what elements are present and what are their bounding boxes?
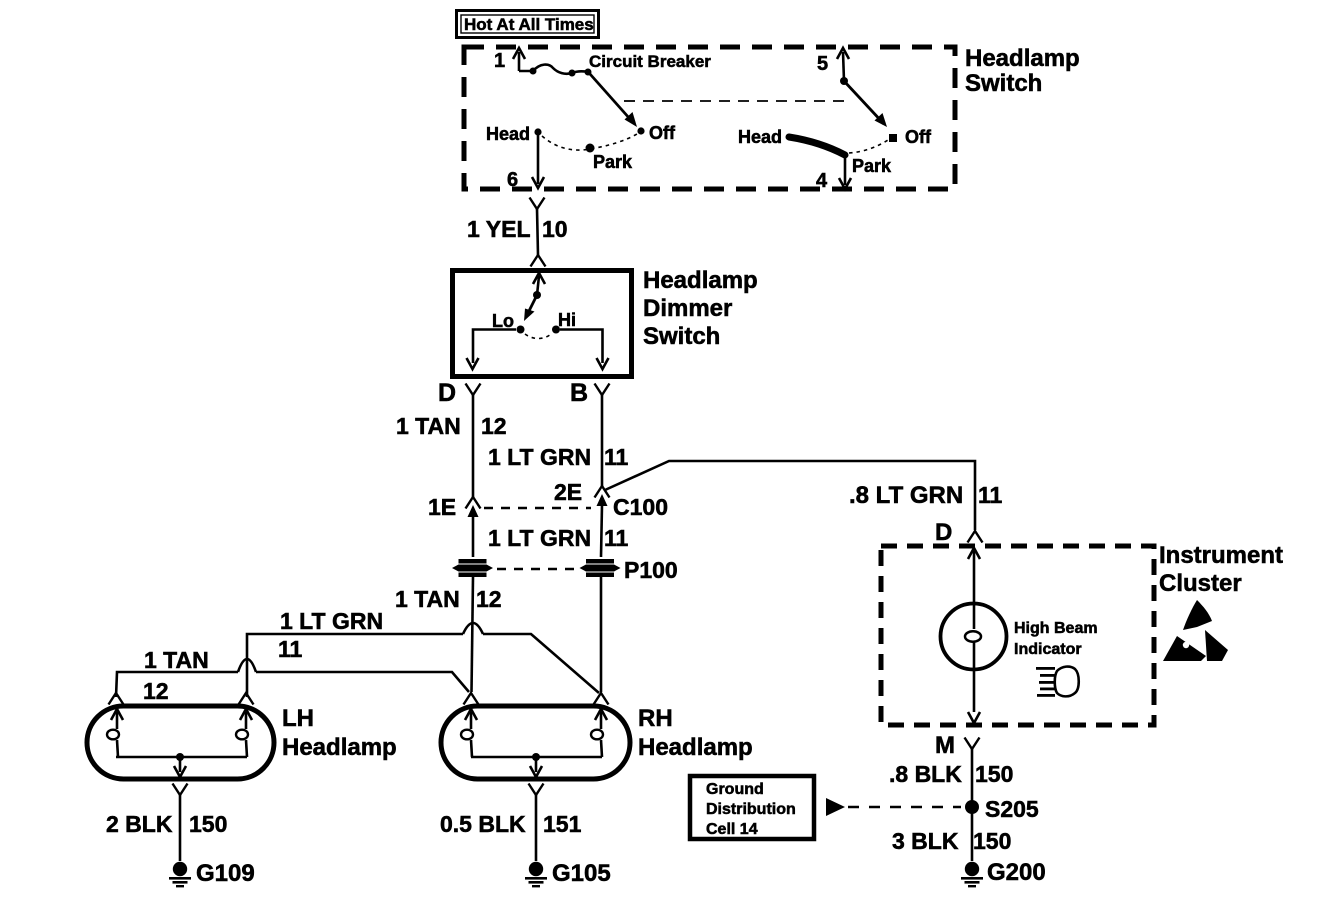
- terminal B: [570, 379, 610, 407]
- wire 0.5 BLK 151: [440, 795, 582, 861]
- svg-text:1: 1: [494, 50, 505, 72]
- svg-text:S205: S205: [985, 796, 1039, 822]
- switch gang link (thin dashed): [624, 100, 852, 102]
- svg-text:151: 151: [543, 811, 582, 837]
- svg-text:1 LT GRN: 1 LT GRN: [488, 444, 591, 470]
- terminal D: [438, 379, 481, 407]
- cluster input arrow: [968, 548, 980, 604]
- wire 1 LT GRN 11 (B to 2E): [488, 395, 629, 486]
- svg-text:Cell 14: Cell 14: [706, 821, 758, 838]
- svg-text:G105: G105: [552, 860, 611, 887]
- wire 3 BLK 150: [892, 828, 1011, 854]
- svg-text:Head: Head: [486, 124, 530, 144]
- high beam indicator bulb: [941, 604, 1098, 713]
- svg-text:1 LT GRN: 1 LT GRN: [488, 525, 591, 551]
- LH filament right: [236, 709, 252, 757]
- svg-text:Headlamp: Headlamp: [282, 734, 397, 761]
- svg-text:4: 4: [816, 170, 828, 192]
- svg-text:Switch: Switch: [965, 70, 1042, 97]
- wire 1 TAN 12 (P100 down): [395, 577, 502, 692]
- terminal D instrument cluster: [935, 519, 983, 546]
- svg-text:Off: Off: [649, 123, 676, 143]
- connector below pin 6: [530, 198, 545, 210]
- RH output fork: [529, 784, 544, 796]
- headlamp dimmer switch box U2: [453, 271, 632, 377]
- svg-text:1 YEL: 1 YEL: [467, 216, 531, 242]
- contact Head (left): [486, 124, 542, 144]
- LH headlamp housing: [87, 706, 274, 779]
- wire 1 TAN 12 (to LH low beam): [116, 647, 469, 704]
- RH internal bus: [471, 753, 602, 777]
- contact Head (right) + heavy wiper: [738, 127, 845, 155]
- svg-text:12: 12: [481, 413, 507, 439]
- high beam icon: [1036, 667, 1079, 697]
- headlamp switch box (dashed): [464, 47, 955, 189]
- dimmer input arrow: [533, 273, 545, 299]
- switch blade 1 (to Off): [590, 74, 637, 127]
- svg-text:D: D: [935, 519, 952, 546]
- connector C100 pin 1E: [428, 494, 481, 520]
- wire 1 LT GRN 11 (2E to P100): [488, 505, 629, 557]
- svg-text:Off: Off: [905, 127, 932, 147]
- splice S205: [965, 796, 1039, 822]
- svg-text:Indicator: Indicator: [1014, 641, 1082, 658]
- contact Park (left) + arc: [542, 134, 637, 172]
- contact Hi: [552, 310, 576, 334]
- svg-text:P100: P100: [624, 557, 678, 583]
- wire 1 LT GRN (P100 down to RH): [600, 577, 603, 692]
- svg-text:Lo: Lo: [492, 311, 514, 331]
- svg-text:Headlamp: Headlamp: [965, 45, 1080, 72]
- connector above dimmer switch: [531, 255, 546, 267]
- svg-text:6: 6: [507, 169, 518, 191]
- svg-text:High Beam: High Beam: [1014, 620, 1098, 637]
- wire 2 BLK 150: [106, 795, 227, 861]
- ground G200: [961, 859, 1046, 887]
- grommet P100 right: [580, 559, 621, 577]
- LH internal bus: [116, 753, 247, 777]
- svg-text:Park: Park: [593, 152, 633, 172]
- svg-text:.8 LT GRN: .8 LT GRN: [849, 482, 963, 509]
- LH headlamp terminal forks: [109, 693, 124, 705]
- svg-text:M: M: [935, 732, 955, 759]
- terminal M: [935, 732, 980, 759]
- headlamp dimmer switch label: [643, 267, 758, 350]
- pin 4: [816, 156, 851, 192]
- ground G105: [525, 860, 611, 887]
- instrument cluster label: [1159, 542, 1283, 597]
- svg-text:150: 150: [973, 828, 1011, 854]
- headlamp switch label: [965, 45, 1080, 97]
- contact Off (right): [889, 127, 932, 147]
- grommet P100 left: [452, 559, 493, 577]
- wire Hi to B output: [560, 330, 609, 370]
- wire Lo to D output: [467, 330, 517, 370]
- wire 1 TAN 12 (D to 1E): [396, 395, 507, 497]
- svg-text:Distribution: Distribution: [706, 801, 796, 818]
- ground distribution callout box: [690, 776, 814, 839]
- svg-text:1 TAN: 1 TAN: [144, 647, 209, 673]
- dimmer wiper arm: [524, 295, 537, 321]
- svg-text:11: 11: [278, 636, 303, 662]
- svg-text:Cluster: Cluster: [1159, 570, 1242, 597]
- svg-text:1 LT GRN: 1 LT GRN: [280, 608, 383, 634]
- svg-text:Instrument: Instrument: [1159, 542, 1283, 569]
- svg-text:1 TAN: 1 TAN: [395, 586, 460, 612]
- svg-text:11: 11: [604, 444, 629, 470]
- pin 6: [507, 135, 544, 191]
- wire 1 TAN 12 (1E to P100): [472, 516, 475, 557]
- wire .8 LT GRN 11 label: [849, 482, 1003, 509]
- Lo-Hi dashed arc: [525, 334, 551, 339]
- svg-text:Headlamp: Headlamp: [643, 267, 758, 294]
- svg-text:2 BLK: 2 BLK: [106, 811, 173, 837]
- connector C100 pin 2E: [554, 479, 610, 506]
- Hot At All Times label box: [457, 11, 599, 38]
- svg-text:2E: 2E: [554, 479, 582, 505]
- svg-text:Ground: Ground: [706, 781, 764, 798]
- LH headlamp label: [282, 705, 397, 761]
- svg-text:10: 10: [542, 216, 568, 242]
- pin 5: [817, 48, 849, 85]
- svg-text:Circuit Breaker: Circuit Breaker: [589, 52, 711, 71]
- svg-text:B: B: [570, 379, 588, 407]
- svg-text:G200: G200: [987, 859, 1046, 886]
- svg-text:3 BLK: 3 BLK: [892, 828, 959, 854]
- instrument cluster box (dashed): [881, 546, 1154, 725]
- svg-text:Hi: Hi: [558, 310, 576, 330]
- svg-text:1E: 1E: [428, 494, 456, 520]
- pin 1: [494, 48, 525, 72]
- svg-text:Head: Head: [738, 127, 782, 147]
- cluster output arrow: [968, 712, 980, 723]
- svg-text:1 TAN: 1 TAN: [396, 413, 461, 439]
- svg-text:D: D: [438, 379, 456, 407]
- svg-text:Headlamp: Headlamp: [638, 734, 753, 761]
- RH filament right: [591, 709, 607, 757]
- svg-text:.8 BLK: .8 BLK: [889, 761, 962, 787]
- svg-text:LH: LH: [282, 705, 314, 732]
- svg-text:12: 12: [476, 586, 502, 612]
- ground G109: [169, 860, 255, 887]
- svg-text:5: 5: [817, 53, 828, 75]
- svg-text:0.5 BLK: 0.5 BLK: [440, 811, 526, 837]
- callout arrow + dashed link to S205: [826, 798, 961, 816]
- LH output fork: [173, 784, 188, 796]
- svg-text:RH: RH: [638, 705, 673, 732]
- svg-text:C100: C100: [613, 494, 668, 520]
- svg-text:12: 12: [143, 678, 169, 704]
- svg-text:150: 150: [975, 761, 1013, 787]
- wire 1 LT GRN 11 (to LH high beam): [247, 608, 599, 697]
- RH filament left: [461, 709, 477, 757]
- branch wire to instrument cluster (.8 LT GRN): [605, 461, 975, 530]
- svg-text:150: 150: [189, 811, 227, 837]
- RH headlamp terminal forks: [464, 693, 479, 705]
- svg-text:Hot At All Times: Hot At All Times: [464, 15, 594, 34]
- ESD symbol: [1163, 600, 1228, 661]
- svg-text:11: 11: [978, 482, 1003, 508]
- Park arc (right): [849, 140, 892, 176]
- connector C100 plane: [484, 494, 668, 520]
- svg-text:11: 11: [604, 525, 629, 551]
- wire .8 BLK 150: [889, 749, 1013, 861]
- LH filament left: [107, 709, 123, 757]
- contact Off (left): [637, 123, 676, 143]
- circuit breaker CB: [519, 52, 711, 77]
- svg-text:Park: Park: [852, 156, 892, 176]
- P100 plane: [497, 557, 678, 583]
- svg-text:Switch: Switch: [643, 323, 720, 350]
- RH headlamp housing: [441, 706, 630, 779]
- contact Lo: [492, 311, 525, 334]
- switch blade 2 (to Off): [844, 81, 887, 127]
- svg-text:G109: G109: [196, 860, 255, 887]
- svg-text:Dimmer: Dimmer: [643, 295, 732, 322]
- wire 1 YEL 10: [467, 209, 568, 255]
- RH headlamp label: [638, 705, 753, 761]
